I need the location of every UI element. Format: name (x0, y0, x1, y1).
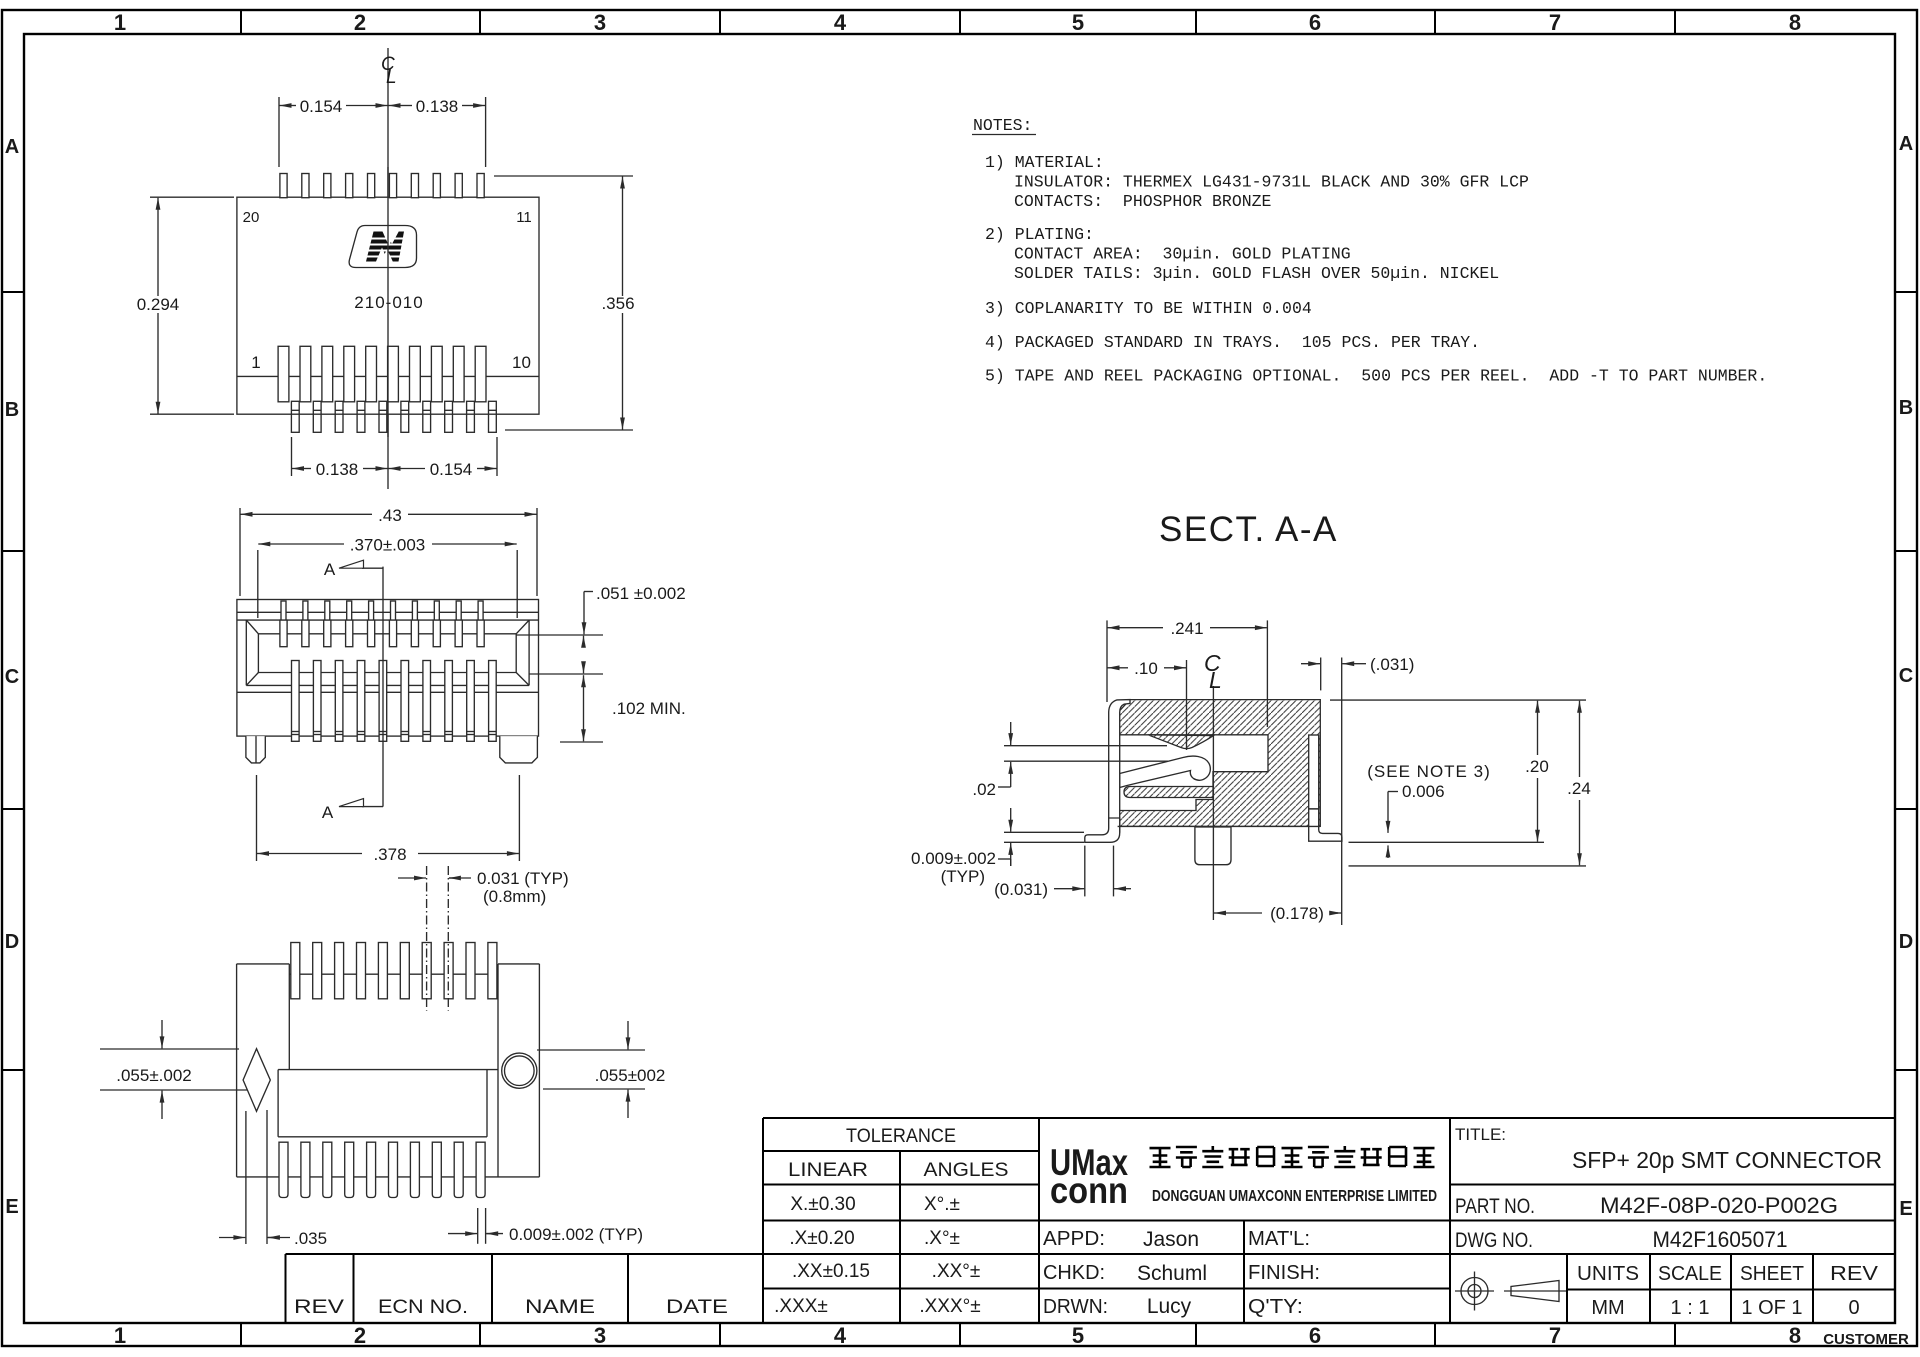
dim .241 (1107, 620, 1267, 727)
svg-text:SECT. A-A: SECT. A-A (1159, 510, 1338, 549)
svg-text:.035: .035 (294, 1229, 327, 1248)
svg-text:.20: .20 (1525, 757, 1549, 776)
svg-text:4) PACKAGED STANDARD IN TRAYS.: 4) PACKAGED STANDARD IN TRAYS. 105 PCS. … (985, 333, 1480, 352)
svg-text:(0.031): (0.031) (994, 880, 1048, 899)
svg-text:4: 4 (834, 10, 847, 35)
svg-text:.378: .378 (373, 845, 406, 864)
svg-text:L: L (1209, 667, 1222, 693)
lower block (278, 1070, 487, 1137)
svg-text:SHEET: SHEET (1740, 1263, 1804, 1285)
right foot (500, 736, 538, 763)
svg-text:ECN NO.: ECN NO. (378, 1297, 468, 1318)
CL symbol (1204, 650, 1222, 693)
svg-text:PART NO.: PART NO. (1455, 1195, 1535, 1218)
svg-text:NOTES:: NOTES: (973, 116, 1032, 135)
lower contact pins (292, 661, 497, 742)
svg-text:SOLDER TAILS: 3µin. GOLD FLASH: SOLDER TAILS: 3µin. GOLD FLASH OVER 50µi… (1014, 264, 1499, 283)
svg-text:7: 7 (1549, 1323, 1561, 1348)
svg-text:conn: conn (1050, 1170, 1128, 1211)
body bottom edge over tail (1118, 825, 1321, 827)
REV/ECN table lines (286, 1254, 764, 1323)
svg-text:210-010: 210-010 (354, 293, 423, 312)
svg-text:D: D (5, 931, 19, 953)
svg-text:INSULATOR: THERMEX LG431-9731L: INSULATOR: THERMEX LG431-9731L BLACK AND… (1014, 173, 1529, 192)
dim 0.138 / 0.154 (bottom) (292, 437, 498, 476)
dim 0.031 (TYP) (0.8mm) (398, 877, 471, 879)
svg-text:0.009±.002: 0.009±.002 (911, 849, 996, 868)
dim 0.009 +/- .002 (TYP) (448, 1208, 503, 1244)
body outline (237, 600, 539, 737)
svg-text:.X°±: .X°± (924, 1228, 960, 1249)
svg-text:0.009±.002 (TYP): 0.009±.002 (TYP) (509, 1225, 643, 1244)
svg-text:REV: REV (294, 1297, 344, 1318)
svg-text:5: 5 (1072, 10, 1084, 35)
top pin row (pins 11-20) (280, 174, 484, 198)
svg-text:1 : 1: 1 : 1 (1671, 1297, 1710, 1319)
internal cavity (white) (1118, 735, 1268, 811)
svg-text:LINEAR: LINEAR (788, 1160, 868, 1181)
shell left foot (1085, 818, 1120, 842)
notes (972, 116, 1767, 549)
svg-text:.370±.003: .370±.003 (350, 536, 426, 555)
svg-text:8: 8 (1789, 10, 1801, 35)
svg-text:Schuml: Schuml (1137, 1262, 1207, 1285)
dim (0.178) (1214, 912, 1341, 914)
svg-text:Q'TY:: Q'TY: (1248, 1296, 1303, 1318)
svg-text:A: A (5, 136, 19, 158)
svg-text:5: 5 (1072, 1323, 1084, 1348)
svg-text:.055±002: .055±002 (595, 1066, 666, 1085)
dim 0.294 (left) (150, 197, 234, 414)
lower hatched beam (1124, 787, 1213, 798)
svg-text:DWG NO.: DWG NO. (1455, 1229, 1533, 1252)
svg-text:5) TAPE AND REEL PACKAGING OPT: 5) TAPE AND REEL PACKAGING OPTIONAL. 500… (985, 367, 1767, 386)
zone ticks top (241, 10, 1675, 34)
connector body outline (237, 197, 539, 414)
svg-text:DATE: DATE (666, 1297, 728, 1318)
svg-text:0.031 (TYP): 0.031 (TYP) (477, 869, 569, 888)
svg-text:A: A (1899, 133, 1913, 155)
dim .051 gap (right side) (516, 635, 603, 674)
zone ticks bottom (241, 1323, 1675, 1346)
bottom pin row (279, 1142, 485, 1197)
svg-text:D: D (1899, 931, 1913, 953)
svg-text:.24: .24 (1567, 779, 1591, 798)
svg-text:0.294: 0.294 (137, 295, 180, 314)
svg-text:.055±.002: .055±.002 (116, 1066, 192, 1085)
dim .102 MIN. (560, 675, 603, 742)
upper/lower block shared edge (278, 1069, 498, 1071)
svg-text:C: C (1899, 665, 1913, 687)
svg-text:(0.8mm): (0.8mm) (483, 887, 546, 906)
bottom feet (291, 401, 496, 432)
svg-text:0: 0 (1848, 1297, 1859, 1319)
centerline overlay (387, 167, 389, 437)
svg-text:CUSTOMER: CUSTOMER (1823, 1331, 1909, 1348)
left foot (246, 736, 265, 763)
svg-text:A: A (324, 560, 336, 579)
svg-text:(TYP): (TYP) (941, 867, 985, 886)
lead-in funnel (hatched wedge) (1148, 735, 1214, 749)
third angle projection: target symbol (1455, 1272, 1494, 1311)
svg-text:.XX°±: .XX°± (932, 1261, 981, 1282)
svg-text:MAT'L:: MAT'L: (1248, 1228, 1310, 1250)
svg-text:L: L (386, 67, 397, 88)
svg-text:CHKD:: CHKD: (1043, 1262, 1105, 1284)
svg-text:1: 1 (114, 1323, 126, 1348)
dim .10 (1108, 660, 1187, 750)
dim .055 +/- .002 (left) (100, 1020, 247, 1119)
svg-text:(0.178): (0.178) (1270, 904, 1324, 923)
view: bottom view (100, 866, 665, 1248)
body lower shoulder line (237, 691, 539, 693)
dim .24 (1579, 701, 1581, 866)
svg-text:NAME: NAME (525, 1297, 595, 1318)
svg-text:0.154: 0.154 (300, 97, 343, 116)
svg-text:.XX±0.15: .XX±0.15 (792, 1261, 870, 1282)
dim .356 (right) (494, 176, 633, 430)
svg-text:10: 10 (512, 353, 531, 372)
logo mark (349, 226, 416, 268)
zone numbers top (114, 10, 1801, 35)
dim 0.154 / 0.138 (top) (279, 97, 486, 167)
body shoulder line (237, 375, 539, 377)
UMax conn logo text (1050, 1142, 1128, 1211)
svg-text:(SEE NOTE 3): (SEE NOTE 3) (1367, 762, 1490, 781)
dim .378 (257, 775, 520, 861)
shell right foot (1309, 809, 1342, 841)
REV/ECN/NAME/DATE labels (294, 1297, 728, 1318)
svg-text:CONTACT AREA: 30µin. GOLD PLA: CONTACT AREA: 30µin. GOLD PLATING (1014, 245, 1351, 264)
svg-text:.10: .10 (1134, 659, 1158, 678)
right retention slot (white) (1309, 735, 1319, 809)
dim .20 (1537, 701, 1539, 842)
dim 0.009 +/- .002 (TYP) left (998, 808, 1084, 866)
svg-text:.43: .43 (378, 506, 402, 525)
svg-text:DONGGUAN UMAXCONN ENTERPRISE L: DONGGUAN UMAXCONN ENTERPRISE LIMITED (1152, 1188, 1437, 1205)
svg-text:1 OF 1: 1 OF 1 (1741, 1297, 1802, 1319)
pin centerlines (dash-dot) (426, 866, 428, 1011)
svg-text:0.138: 0.138 (416, 97, 459, 116)
svg-text:TITLE:: TITLE: (1455, 1125, 1506, 1144)
svg-text:.241: .241 (1170, 619, 1203, 638)
title block (286, 1118, 1896, 1323)
UNITS/SCALE/SHEET/REV values (1591, 1297, 1859, 1319)
svg-text:Jason: Jason (1143, 1228, 1199, 1251)
dim .370 +/- .003 (258, 544, 517, 618)
svg-text:.102 MIN.: .102 MIN. (612, 699, 686, 718)
svg-text:.02: .02 (972, 780, 996, 799)
mounting hole circle (502, 1053, 537, 1088)
mating cavity outline (246, 620, 529, 685)
zone letters left (5, 136, 19, 1218)
section centerline (1212, 686, 1214, 920)
svg-text:B: B (1899, 397, 1913, 419)
EMI shell left (white) (1109, 700, 1130, 832)
zone ticks left (2, 292, 24, 1070)
svg-text:2: 2 (354, 1323, 366, 1348)
svg-text:ANGLES: ANGLES (924, 1160, 1009, 1181)
contact spring (white) (1120, 756, 1211, 787)
polarizing diamond (243, 1049, 270, 1112)
svg-text:APPD:: APPD: (1043, 1228, 1105, 1250)
dim (0.031) bottom (1054, 846, 1131, 897)
svg-text:A: A (322, 803, 334, 822)
top pin row (291, 943, 497, 999)
dim .035 (219, 1110, 290, 1244)
zone numbers bottom (114, 1323, 1801, 1348)
svg-text:4: 4 (834, 1323, 847, 1348)
zone letters right (1899, 133, 1913, 1220)
tolerance table texts (774, 1126, 1008, 1317)
housing cross-section (hatched) (1118, 700, 1321, 827)
centerline (387, 48, 389, 489)
svg-text:11: 11 (516, 209, 532, 226)
svg-text:E: E (5, 1196, 18, 1218)
section line A-A (382, 567, 384, 807)
right reference lines (1330, 700, 1586, 866)
svg-text:3: 3 (594, 10, 606, 35)
UNITS/SCALE/SHEET/REV headers (1577, 1263, 1879, 1285)
upper block top edge (289, 973, 498, 975)
svg-text:M42F-08P-020-P002G: M42F-08P-020-P002G (1600, 1193, 1838, 1218)
CL symbol (381, 54, 397, 88)
upper contact pins (280, 601, 484, 647)
svg-text:SFP+ 20p SMT CONNECTOR: SFP+ 20p SMT CONNECTOR (1572, 1147, 1882, 1173)
dim .055 +/- 002 (right) (537, 1021, 645, 1118)
outer body outline (237, 964, 540, 1177)
svg-text:0.138: 0.138 (316, 460, 359, 479)
solder tail (white) (1195, 827, 1231, 865)
svg-text:20: 20 (243, 209, 260, 226)
top strip lines (237, 611, 539, 613)
section line overlay (382, 600, 384, 742)
svg-text:1: 1 (251, 353, 260, 372)
svg-text:6: 6 (1309, 1323, 1321, 1348)
svg-text:X.±0.30: X.±0.30 (790, 1194, 855, 1215)
svg-text:.X±0.20: .X±0.20 (789, 1228, 854, 1249)
svg-text:8: 8 (1789, 1323, 1801, 1348)
svg-text:REV: REV (1830, 1263, 1879, 1285)
dim (.031) top right (1301, 658, 1366, 926)
svg-text:TOLERANCE: TOLERANCE (846, 1126, 956, 1147)
label 0.006 with leader (1388, 792, 1398, 859)
svg-text:CONTACTS: PHOSPHOR BRONZE: CONTACTS: PHOSPHOR BRONZE (1014, 192, 1272, 211)
svg-text:E: E (1899, 1198, 1912, 1220)
dim .02 left (998, 722, 1168, 787)
view: front view (237, 506, 686, 864)
title block grid lines (763, 1118, 1895, 1323)
svg-text:UNITS: UNITS (1577, 1263, 1639, 1285)
svg-text:M42F1605071: M42F1605071 (1653, 1227, 1788, 1252)
chinese company name (stylized strokes) (1150, 1146, 1435, 1167)
bottom contact pins (pins 1-10) (278, 346, 486, 402)
svg-text:(.031): (.031) (1370, 655, 1414, 674)
signature names (1137, 1228, 1207, 1318)
dim .43 (240, 508, 537, 596)
svg-text:1) MATERIAL:: 1) MATERIAL: (985, 153, 1104, 172)
svg-text:2) PLATING:: 2) PLATING: (985, 225, 1094, 244)
APPD/CHKD/DRWN labels (1043, 1228, 1320, 1318)
svg-text:SCALE: SCALE (1658, 1263, 1722, 1285)
svg-text:6: 6 (1309, 10, 1321, 35)
svg-text:.356: .356 (601, 294, 634, 313)
svg-text:Lucy: Lucy (1147, 1295, 1192, 1318)
svg-text:C: C (5, 666, 19, 688)
third angle projection: cone symbol (1504, 1281, 1566, 1302)
svg-text:.051 ±0.002: .051 ±0.002 (596, 584, 686, 603)
svg-text:DRWN:: DRWN: (1043, 1296, 1108, 1318)
svg-text:MM: MM (1591, 1297, 1624, 1319)
svg-text:B: B (5, 399, 19, 421)
svg-text:X°.±: X°.± (924, 1194, 960, 1215)
svg-text:0.006: 0.006 (1402, 782, 1445, 801)
svg-text:FINISH:: FINISH: (1248, 1262, 1320, 1284)
svg-text:7: 7 (1549, 10, 1561, 35)
zone ticks right (1895, 292, 1917, 1070)
svg-text:3: 3 (594, 1323, 606, 1348)
svg-text:0.154: 0.154 (430, 460, 473, 479)
svg-text:2: 2 (354, 10, 366, 35)
bottom edge (237, 1176, 540, 1178)
svg-text:.XXX°±: .XXX°± (919, 1296, 980, 1317)
view: section A-A (911, 619, 1591, 925)
view: top view (237, 48, 539, 489)
svg-text:3) COPLANARITY TO BE WITHIN 0.: 3) COPLANARITY TO BE WITHIN 0.004 (985, 299, 1312, 318)
svg-text:1: 1 (114, 10, 126, 35)
svg-text:.XXX±: .XXX± (774, 1296, 828, 1317)
